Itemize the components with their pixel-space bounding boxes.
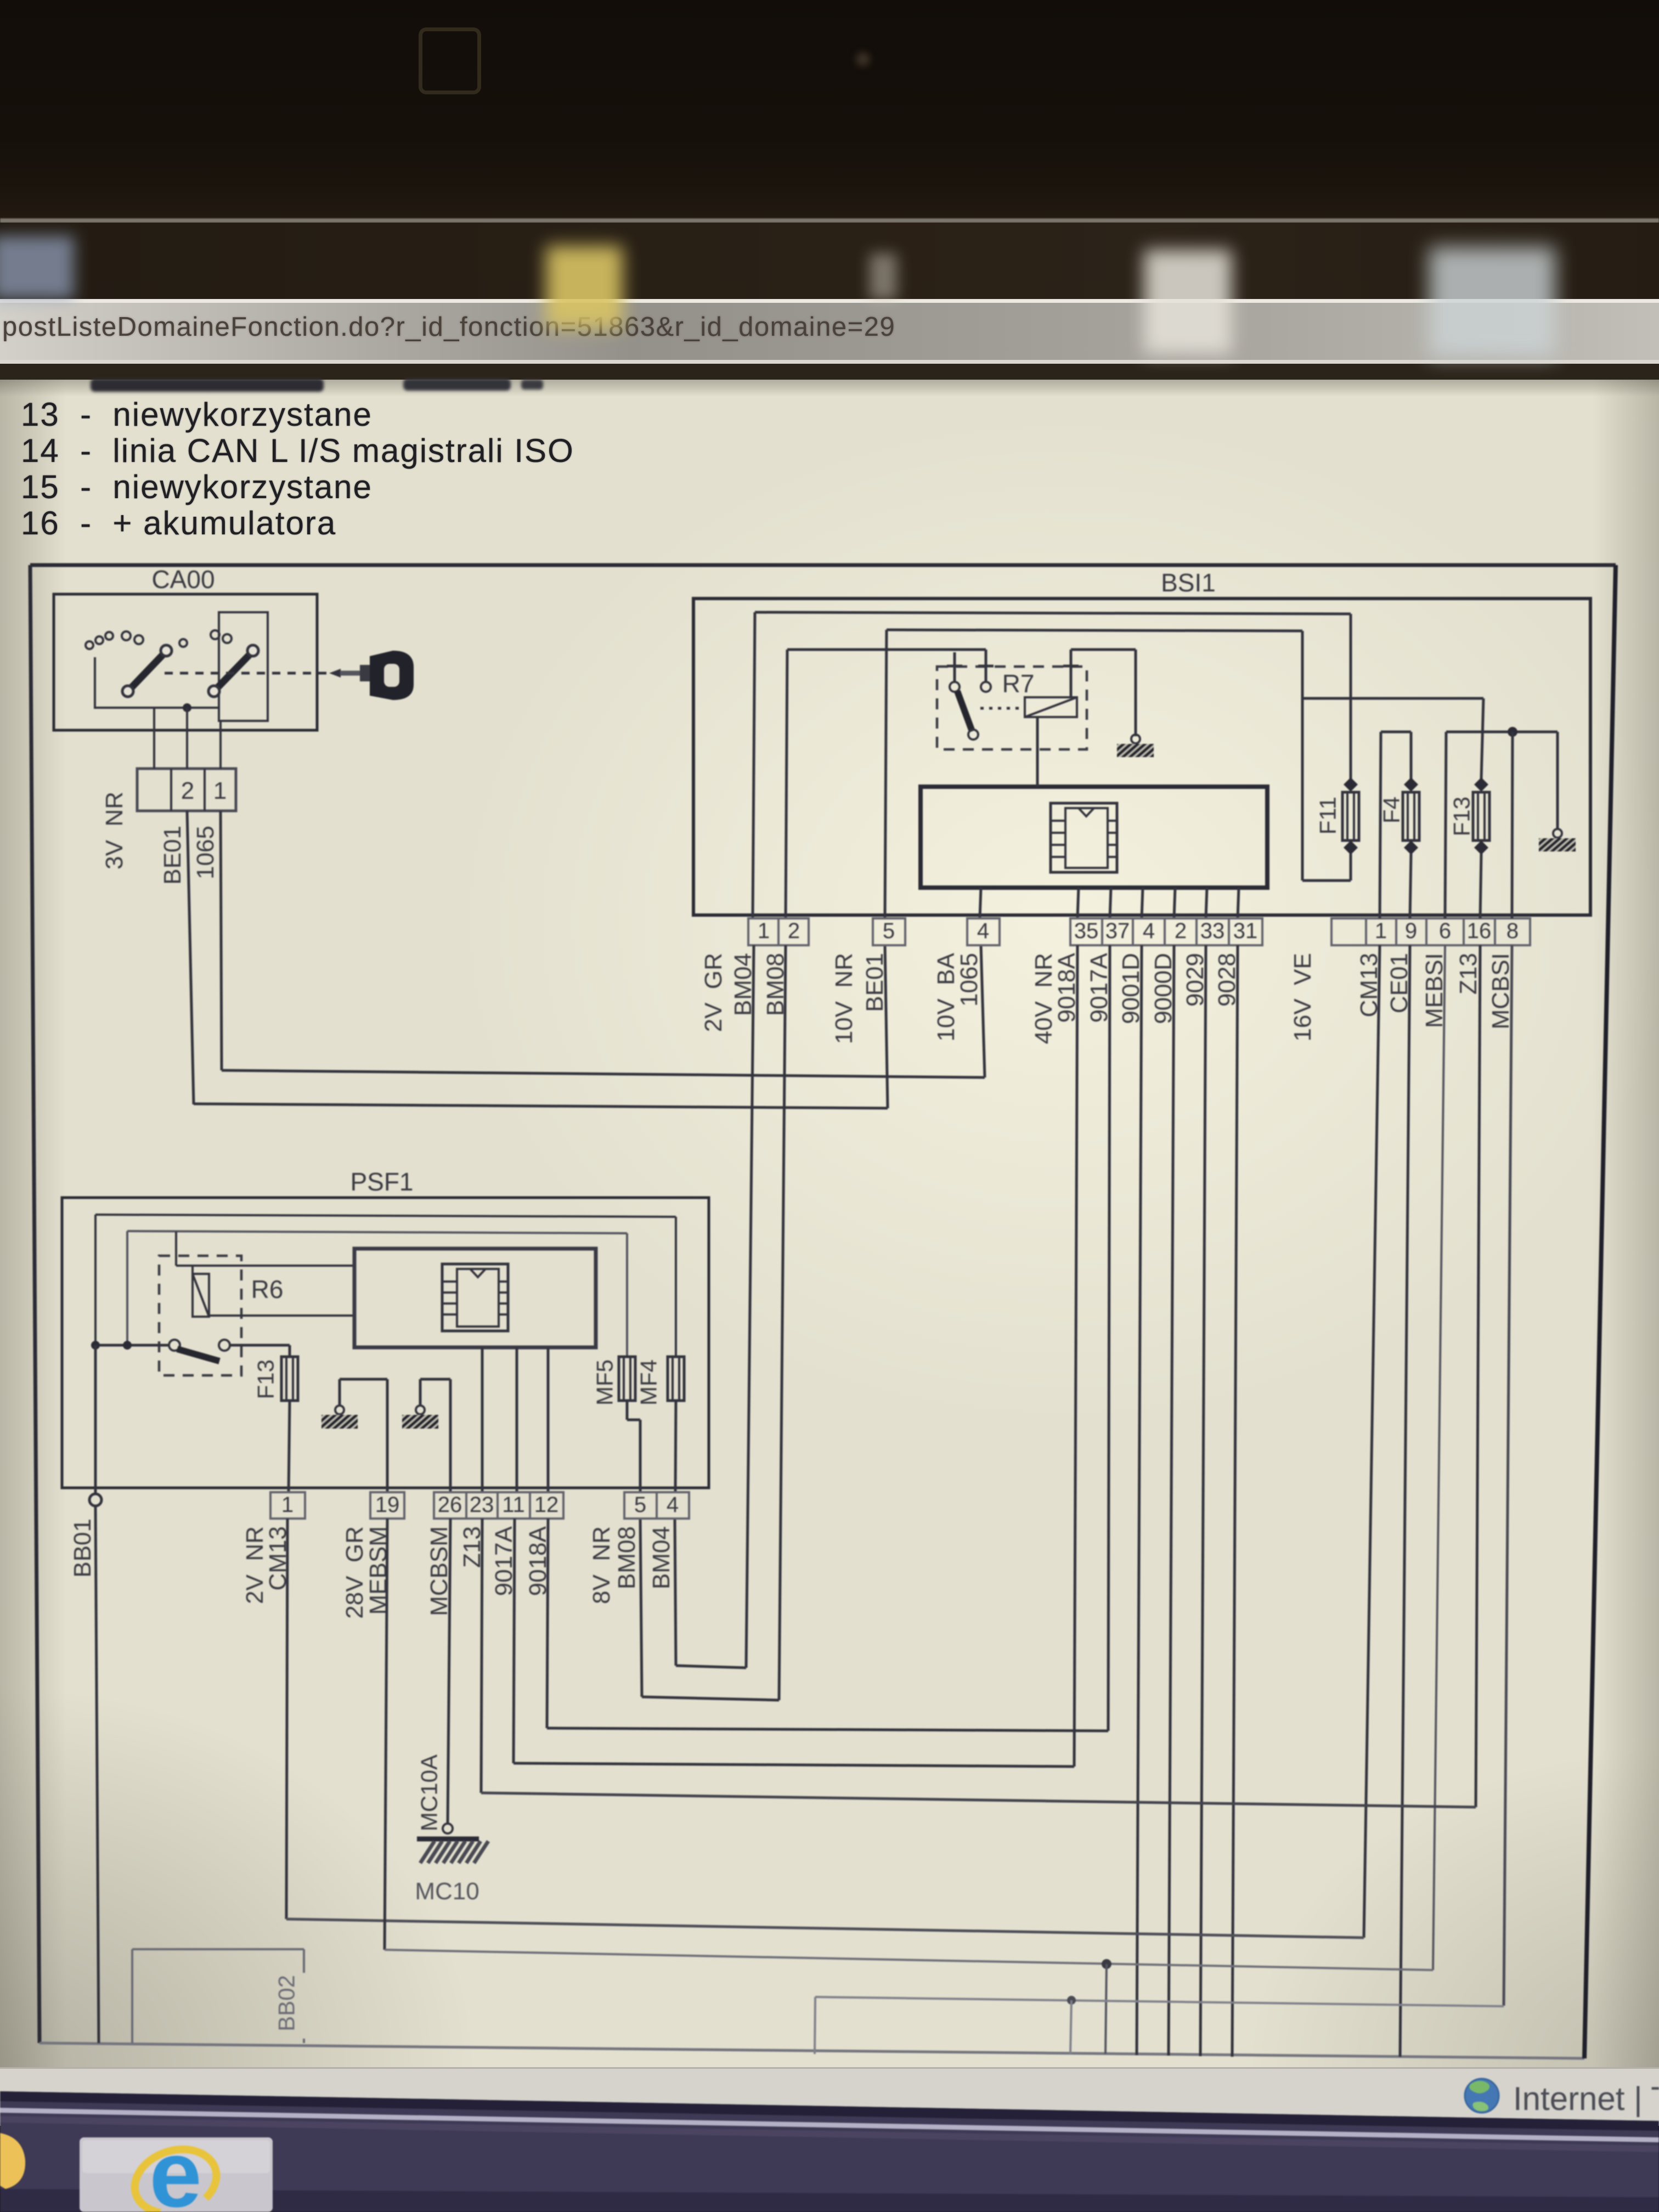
svg-text:BE01: BE01 [861,953,888,1012]
wire rail to chassis [1481,731,1558,733]
svg-text:R6: R6 [251,1275,284,1304]
wire module to pin 2b [1174,888,1175,918]
wire MF4 to pin 4 [675,1401,676,1492]
svg-text:PSF1: PSF1 [350,1167,413,1196]
terminal MC10A ring [443,1824,453,1833]
relay R6 contact arm [177,1349,219,1361]
svg-text:35: 35 [1074,919,1099,943]
wire BM04 rise to PSF pin 4 [675,1519,676,1666]
connector PSF1 box [62,1198,709,1488]
wire supply to R6 contact [95,1344,169,1347]
ground loop 2 [416,1406,425,1414]
wire F11 loop left [1301,631,1304,881]
wire pin 19 riser [386,1379,389,1492]
wire module to pin 4 [980,888,981,918]
terminal diamond F4 top [1404,777,1418,792]
wire ground stem 1 [338,1379,341,1406]
svg-text:MF5: MF5 [591,1359,617,1406]
pin divider [1164,918,1166,945]
ground chassis PSF 1 [308,1414,369,1430]
wire 1065 rise to BSI pin 4 [981,945,985,1077]
terminal stub right of R7 [985,650,988,682]
connector BSI pins 35-31 [1070,918,1262,945]
pin divider [1365,918,1367,945]
wire coil top stub [191,1266,194,1274]
svg-text:9: 9 [1405,919,1417,943]
pin divider [204,769,206,811]
svg-text:6: 6 [1439,919,1451,943]
svg-text:11: 11 [502,1493,525,1517]
terminal T-bar right of R7 [978,665,994,668]
wire F13 loop left to pin 6 [1445,732,1446,918]
wire down to chassis [1135,650,1137,736]
wire BM04 drop from BSI pin 1 [746,945,754,1668]
terminal T-bar coil [1063,665,1079,668]
terminal diamond F13 bottom [1474,840,1488,855]
svg-text:2V GR: 2V GR [700,953,727,1032]
globe icon [1465,2079,1499,2113]
relay R7 contact a [950,682,960,692]
wire CM13 drop from PSF [286,1519,287,1919]
IC chip symbol U-PSF [442,1264,508,1331]
svg-text:CA00: CA00 [151,565,215,594]
wire 9029 drop [1200,945,1206,2056]
contact stud 2 of switch CA00 [95,636,103,644]
fuse MF5 [619,1357,635,1401]
wire CA00 inner sub-box [219,612,268,721]
svg-text:F13: F13 [252,1359,278,1399]
wire switch to pin 1 [219,721,222,769]
wire 1065 horizontal run [222,1070,985,1077]
wire module to pin 11 [516,1347,518,1492]
wire outer frame bottom (ground bus) [39,2043,1584,2058]
relay R6 coil [193,1274,209,1317]
wire junction to pin 8 [1512,732,1513,918]
pin divider [496,1492,499,1519]
wire pin 26 riser [449,1379,452,1492]
connector PSF pin 1 [270,1492,305,1519]
wire Z13 long run [481,1793,1476,1807]
wire F13 to pin 16 [1480,854,1481,918]
wire coil bottom to module [209,1314,354,1317]
wire PSF rail 3 right to MF5 [626,1233,628,1357]
wire BB01 down to ground bus [95,1506,99,2043]
svg-text:R7: R7 [1002,669,1035,698]
connector BSI pin 4 [967,918,1000,945]
svg-text:37: 37 [1105,919,1130,943]
wire BSI pin 2 riser [786,650,787,918]
wire PSF rail 2 left [94,1215,97,1344]
svg-text:1: 1 [758,919,770,943]
node junction rail3 [123,1341,132,1350]
wire CE01 drop from BSI [1400,945,1410,2057]
pin divider [1494,918,1496,945]
wire CA00 inner left [94,657,96,709]
svg-text:5: 5 [883,919,895,943]
svg-text:4: 4 [977,919,989,943]
wire coil to module [1036,717,1039,787]
wire CM13 drop from BSI [1364,945,1380,1938]
terminal BB01 ring [89,1494,101,1506]
wire BSI pin 5 riser [885,630,887,918]
wire BM08 drop from BSI pin 2 [779,945,786,1700]
svg-text:33: 33 [1200,919,1225,943]
wire switch to empty pin [153,708,155,769]
relay R6 contact b [219,1340,230,1351]
wire F4 loop top [1381,731,1411,733]
wire pin 26 ground step [420,1378,450,1381]
svg-text:e: e [149,2121,202,2212]
wire MCBSM drop from PSF [448,1519,450,1824]
svg-text:26: 26 [438,1493,462,1517]
pin divider [1101,918,1103,945]
pin divider [1195,918,1198,945]
svg-text:16V VE: 16V VE [1289,953,1316,1041]
svg-text:BM08: BM08 [613,1526,640,1589]
wire PSF rail 3 left [126,1231,128,1344]
wire module to pin 23 [481,1347,484,1492]
svg-text:1: 1 [1375,919,1387,943]
fuse MF4 [668,1357,684,1401]
relay R7 arm end [968,730,978,740]
IE taskbar button [80,2121,273,2212]
svg-text:16: 16 [1467,919,1492,943]
wire outer frame left [30,565,39,2043]
svg-text:23: 23 [470,1493,494,1517]
pin divider [1425,918,1427,945]
svg-text:BM04: BM04 [648,1526,675,1589]
wire BB02 box top [132,1948,304,1950]
fuse F13 [1473,792,1489,840]
wire junction stub to ground bus [1105,1964,1107,2054]
wire MEBSM/MEBSI long run [385,1950,1433,1970]
svg-text:8: 8 [1506,919,1519,943]
ground chassis in BSI (right) [1526,837,1586,853]
connector PSF pins 5-4 [624,1492,689,1519]
wire junction stub 2 to ground bus [1070,2000,1071,2054]
wire 9018A drop from PSF [547,1519,548,1728]
wire module to pin 4b [1142,888,1143,918]
wire BE01 horizontal run [194,1104,888,1108]
svg-text:MC10: MC10 [415,1878,479,1905]
contact end 1a [122,686,133,697]
svg-text:F11: F11 [1314,797,1340,834]
connector BSI pins 16V VE [1331,918,1530,945]
wire BM04 U-bottom [676,1666,746,1668]
connector CA00 box [54,594,317,730]
svg-text:19: 19 [375,1493,400,1517]
relay R6 coil diagonal [193,1274,209,1317]
wire module to pin 33 [1206,888,1207,918]
relay R7 mech link dotted [980,707,1023,710]
relay R7 contact b [981,682,991,692]
wire MCBSI corner riser [815,1997,815,2054]
relay R7 contact arm [957,691,972,731]
contact stud 7 of switch CA00 [211,630,219,639]
contact stud 5 of switch CA00 [134,635,143,644]
node junction BB01 [91,1341,100,1350]
wire F13 loop top [1446,731,1481,733]
wire coil top stub [1070,650,1073,697]
key symbol [329,651,414,700]
wire module to pin 12 [547,1347,550,1492]
wire BB02 box left [131,1949,133,2043]
svg-text:MC10A: MC10A [416,1754,442,1831]
wire coil feed stub [175,1232,177,1266]
IC chip symbol U-BSI [1051,803,1117,872]
node junction on rail [1508,727,1517,737]
wire switch to pin 2 [186,708,188,769]
relay R7 dashed enclosure [937,667,1087,749]
wire to fuse F11 [1350,614,1352,779]
wire BB02 box right lower [303,2039,305,2043]
svg-text:1: 1 [213,777,227,804]
terminal diamond F13 top [1474,777,1488,792]
wire MEBSM drop from PSF [385,1519,387,1950]
wire BE01 rise to BSI pin 5 [885,945,888,1108]
wire PSF rail 2 right to MF4 [675,1217,677,1357]
wire BB01 inside PSF [94,1345,97,1493]
svg-text:1065: 1065 [956,953,983,1007]
wire CA00 inner bottom [95,707,219,709]
pin divider [170,769,172,811]
wire module to pin 35 [1077,888,1079,918]
svg-text:3V NR: 3V NR [101,792,128,870]
connector BSI pins 1-2 [748,918,809,945]
terminal T-bar left of R7 [947,665,962,668]
wire 9000D drop [1169,945,1174,2056]
contact stud 4 of switch CA00 [122,631,131,640]
relay R6 contact a [169,1340,180,1351]
wire 9001D drop [1137,945,1142,2055]
wire MF5 jog right [627,1419,640,1421]
wire F11 loop bottom [1302,879,1351,882]
svg-text:BB02: BB02 [273,1975,299,2032]
wire module to pin 31 [1238,888,1239,918]
wire BSI pin 2 to relay R7 [787,648,986,651]
wire MCBSI long run [815,1997,1504,2006]
svg-text:1065: 1065 [192,826,219,879]
svg-text:BSI1: BSI1 [1161,568,1216,597]
terminal diamond F11 bottom [1344,840,1358,855]
pin divider [1463,918,1465,945]
pin divider [777,918,780,945]
wire BSI rail from pin 5 [887,630,1302,631]
wire MF5 jog down [626,1401,629,1420]
ground chassis PSF 2 [388,1414,449,1430]
svg-text:2: 2 [1175,919,1187,943]
svg-text:BB01: BB01 [69,1519,96,1578]
wire 9017A long run [513,1763,1074,1767]
wire 9017A drop from PSF [513,1519,515,1763]
pin divider [656,1492,658,1519]
svg-text:1: 1 [281,1493,294,1517]
wire Z13 drop from PSF [481,1519,482,1793]
relay R6 dashed enclosure [159,1256,241,1375]
pin divider [1395,918,1397,945]
contact stud 1 of switch CA00 [86,641,93,649]
wire 9028 drop [1232,945,1238,2057]
taskbar [0,2091,1659,2212]
wire Z13 drop from BSI [1476,945,1480,1807]
IE logo [126,2121,224,2212]
wire pin 19 ground step [340,1378,387,1381]
wire R6 contact to F13 [230,1344,290,1347]
switch CA00 contact arm 2 [216,652,252,690]
switch CA00 contact arm 1 [129,652,165,690]
svg-text:Internet | Tr: Internet | Tr [1513,2080,1659,2117]
wire 9018A drop [1074,945,1077,1767]
wire coil to ground run [1071,648,1136,651]
contact stud 6 of switch CA00 [179,639,187,647]
connector PSF pin 19 [370,1492,404,1519]
wire outer frame top [30,563,1616,567]
contact end 2a [208,686,219,697]
wire CM13 long run [286,1919,1364,1938]
wire PSF rail 2 [95,1215,676,1217]
svg-text:31: 31 [1233,919,1258,943]
ground MC10 [417,1837,479,1842]
node CA00 junction [183,703,191,712]
connector CA00 pins [137,769,236,811]
wire BSI pin 1 riser [753,612,755,918]
connector BSI1 box [693,599,1590,915]
chassis loop [1131,735,1140,743]
connector BSI pin 5 [873,918,905,945]
ground loop 1 [335,1406,344,1414]
svg-text:28V GR: 28V GR [341,1526,368,1619]
svg-text:MF4: MF4 [635,1359,661,1406]
wire rail 10V to F13 [1302,697,1483,700]
taskbar icon left partial [0,2133,25,2189]
svg-text:Z13: Z13 [1455,953,1482,995]
wire PSF rail 3 [127,1231,627,1233]
wire MCBSI drop from BSI [1504,945,1512,2006]
pin divider [1132,918,1134,945]
wire 9017A drop [1108,945,1110,1731]
wire 1065 from CA00 pin 1 [221,811,222,1070]
relay R7 coil [1025,697,1077,717]
svg-text:F13: F13 [1448,797,1474,836]
wire BB02 box right upper [303,1949,305,1973]
svg-text:12: 12 [534,1493,559,1517]
connector PSF pins 26-12 [434,1492,563,1519]
contact end 2b [247,645,258,656]
wire ground stem 2 [419,1379,422,1406]
wire BSI rail from pin 1 [755,612,1351,614]
wire rail down to chassis [1556,732,1559,830]
wire MF5 to pin 5 [639,1420,642,1492]
terminal diamond F11 top [1344,777,1358,792]
wire to fuse F13 PSF [289,1345,291,1357]
wire coil top run to module [176,1265,354,1267]
wire 9018A long run [547,1728,1108,1731]
svg-text:BE01: BE01 [159,826,186,885]
wire F13 PSF to pin 1 [289,1401,290,1492]
module box BSI computer [921,787,1267,888]
module box PSF computer [354,1249,596,1347]
wire F4 loop left to pin 1 [1380,732,1381,918]
svg-text:2: 2 [181,777,194,804]
mechanical link dashed [165,672,328,675]
node junction on MEBSM run [1102,1959,1111,1969]
wire to fuse F4 [1410,732,1413,779]
pin divider [465,1492,467,1519]
fuse F11 [1342,792,1359,840]
wire BM08 rise to PSF pin 5 [640,1519,642,1697]
contact stud 8 of switch CA00 [223,634,232,643]
wire module to pin 37 [1110,888,1111,918]
fuse F13 of PSF [281,1357,298,1401]
svg-text:10V NR: 10V NR [831,953,857,1044]
terminal stub left of R7 [953,652,956,682]
wire below F11 [1350,854,1352,881]
wire F4 to pin 9 [1410,854,1411,918]
wire BE01 from CA00 pin 2 [187,811,194,1104]
wire MEBSI drop from BSI [1433,945,1445,1970]
node junction on MCBSI run [1067,1996,1076,2005]
chassis loop 2 [1553,829,1562,838]
ground chassis in BSI (relay) [1104,743,1164,758]
wire to fuse F13 [1481,698,1483,779]
wire BM08 U-bottom [642,1697,779,1700]
svg-text:2: 2 [788,919,800,943]
pin divider [1228,918,1230,945]
svg-text:4: 4 [667,1493,679,1517]
pin divider [529,1492,531,1519]
contact stud 3 of switch CA00 [105,632,113,640]
wire outer frame right [1584,565,1616,2058]
svg-text:5: 5 [634,1493,646,1517]
terminal diamond F4 bottom [1404,840,1418,855]
svg-text:8V NR: 8V NR [588,1526,615,1604]
relay R7 coil diagonal [1025,697,1077,717]
fuse F4 [1403,792,1419,840]
svg-text:4: 4 [1143,919,1155,943]
contact end 1b [161,645,172,656]
svg-text:F4: F4 [1378,797,1404,823]
